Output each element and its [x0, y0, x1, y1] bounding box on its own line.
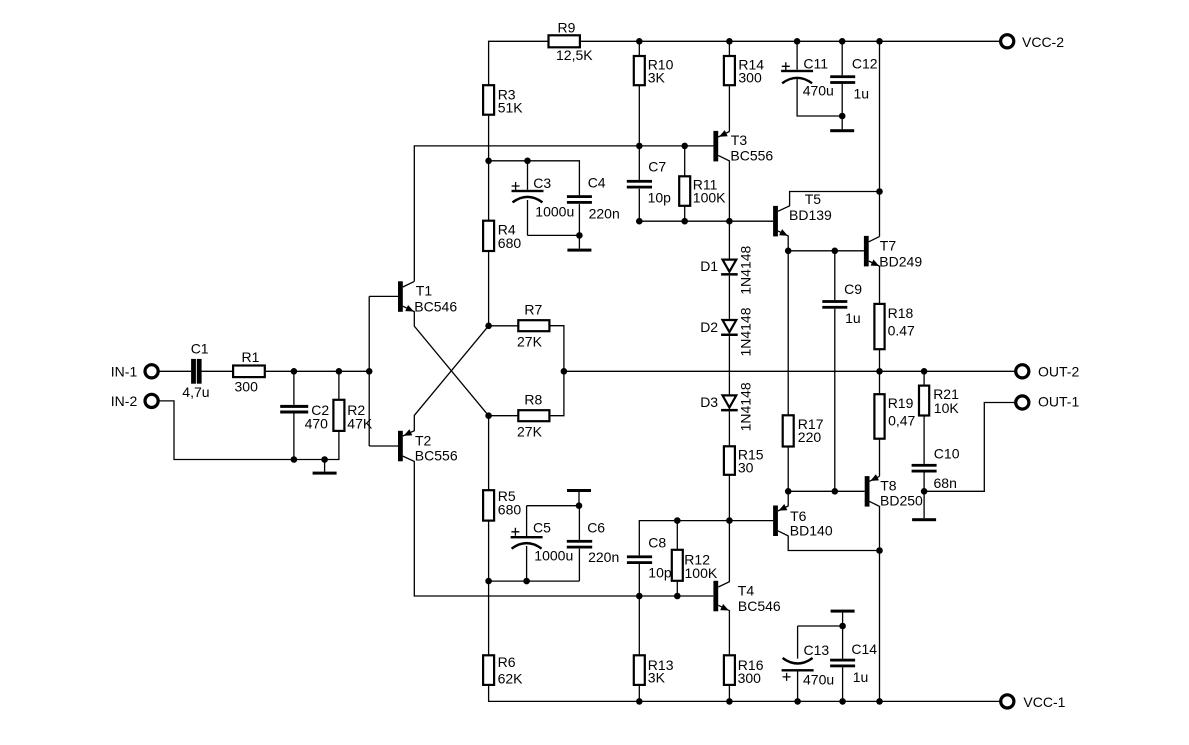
wire T6 collector to T8 collector node — [778, 531, 880, 551]
svg-text:BC546: BC546 — [738, 598, 781, 614]
wire node B to R5 top — [488, 416, 490, 491]
node OUT-2 rail / R18-R19 — [876, 368, 883, 375]
node T5 base / R11 — [681, 218, 688, 225]
svg-text:680: 680 — [498, 235, 522, 251]
wire T4 collector up to bias node — [718, 521, 729, 587]
svg-text:220n: 220n — [589, 205, 620, 221]
svg-text:T4: T4 — [738, 582, 755, 598]
wire T1 collector stub — [403, 281, 415, 287]
emitter arrow T6 — [779, 504, 788, 511]
svg-text:220: 220 — [798, 429, 822, 445]
wire T5 emitter to T7 base — [788, 250, 864, 252]
wire R11 top lead — [684, 146, 686, 176]
diode D2 1N4148 — [723, 320, 737, 332]
svg-text:10p: 10p — [648, 565, 672, 581]
wire C7 bottom to T5 base — [639, 189, 773, 222]
svg-text:C10: C10 — [934, 446, 960, 462]
svg-text:C1: C1 — [191, 341, 209, 357]
svg-text:1u: 1u — [854, 85, 870, 101]
emitter arrow T3 — [719, 130, 728, 137]
wire C8 top to T6 base — [639, 521, 773, 556]
wire C6 top lead — [578, 506, 580, 540]
ground ground (C3/C4) — [578, 235, 580, 248]
svg-text:T7: T7 — [880, 238, 897, 254]
svg-text:3K: 3K — [648, 69, 666, 85]
resistor R12 100K — [672, 550, 683, 581]
terminal VCC-1 — [1001, 695, 1014, 708]
node right rail / T5 T7 collectors — [876, 188, 883, 195]
node top rail / R10 — [636, 38, 643, 45]
svg-text:100K: 100K — [693, 190, 726, 206]
svg-text:T1: T1 — [416, 283, 433, 299]
svg-text:30: 30 — [738, 460, 754, 476]
svg-text:47K: 47K — [347, 415, 373, 431]
resistor R16 300 — [724, 655, 735, 685]
capacitor C10 68n — [912, 464, 937, 467]
wire C13/C14 top node — [798, 625, 843, 627]
polarity + C13 — [783, 673, 791, 681]
node C5 bottom — [523, 578, 530, 585]
resistor R18 0.47 — [874, 304, 884, 349]
wire R12 top lead — [676, 521, 678, 550]
emitter arrow T7 — [871, 260, 880, 267]
svg-text:R9: R9 — [558, 20, 576, 36]
wire input node vertical (T1 base to T2 base) — [368, 296, 370, 446]
wire R17 top lead — [787, 251, 789, 415]
wire R14 top lead — [728, 41, 730, 56]
capacitor C6 220n — [567, 540, 592, 543]
svg-text:D2: D2 — [700, 319, 718, 335]
svg-text:BC556: BC556 — [415, 448, 458, 464]
wire T8 base node wire — [788, 490, 865, 492]
svg-text:BC546: BC546 — [414, 299, 457, 315]
node input / R2 — [336, 368, 343, 375]
wire T3 emitter stub — [718, 132, 729, 138]
resistor R7 27K — [518, 320, 549, 331]
terminal OUT-1 — [1016, 396, 1029, 409]
node top rail / R14 — [726, 38, 733, 45]
capacitor C8 10p — [627, 555, 652, 558]
svg-text:C12: C12 — [852, 56, 878, 72]
wire C3/C4 bottom to ground — [528, 204, 580, 235]
svg-text:680: 680 — [498, 502, 522, 518]
svg-text:R19: R19 — [888, 395, 914, 411]
wire C11 bottom to C12 bottom — [797, 78, 842, 116]
svg-text:12,5K: 12,5K — [556, 47, 593, 63]
resistor R6 62K — [483, 655, 494, 685]
emitter arrow T1 — [405, 305, 414, 312]
transistor T7 BD249 — [864, 236, 869, 267]
wire R17 bottom lead — [787, 447, 789, 492]
emitter arrow T5 — [779, 229, 788, 236]
wire T1 collector to T3 base — [414, 146, 713, 282]
wire C5/C6 bottom node to R5 rail — [489, 580, 580, 582]
svg-text:VCC-1: VCC-1 — [1023, 694, 1065, 710]
wire T8 collector down — [870, 501, 880, 550]
svg-text:T8: T8 — [880, 478, 897, 494]
wire C7 top lead — [638, 146, 640, 180]
terminal IN-2 — [145, 394, 158, 407]
node T3 base wire / C7-R10 — [636, 143, 643, 150]
capacitor C5 1000u (electrolytic) — [511, 536, 543, 538]
wire C3 bottom lead — [527, 200, 529, 235]
svg-text:68n: 68n — [934, 475, 957, 491]
svg-text:27K: 27K — [517, 423, 543, 439]
wire R16 bottom lead — [728, 685, 730, 702]
node T8 base / R17 — [785, 488, 792, 495]
svg-text:1000u: 1000u — [535, 203, 574, 219]
svg-text:0,47: 0,47 — [888, 412, 915, 428]
wire R12 bottom lead — [676, 581, 678, 596]
svg-text:220n: 220n — [588, 549, 619, 565]
node T6 base / R15 / T4 collector — [726, 517, 733, 524]
wire C9 top lead — [834, 251, 836, 300]
ground ground (C13/C14, inverted) — [831, 610, 855, 613]
svg-text:3K: 3K — [648, 670, 666, 686]
polarity + C3 — [512, 182, 520, 190]
node A (R4/R7/T2 emitter) — [485, 323, 492, 330]
node T5 base / C7 — [636, 218, 643, 225]
terminal OUT-2 — [1016, 365, 1029, 378]
wire C8 bottom lead — [638, 564, 640, 596]
capacitor C3 1000u (electrolytic) — [512, 190, 544, 192]
wire T4 emitter to R16 — [718, 605, 729, 655]
wire node B to R8 — [489, 415, 519, 417]
svg-text:1u: 1u — [845, 310, 861, 326]
wire C9 bottom lead to T8 base node — [834, 309, 836, 492]
svg-text:BD140: BD140 — [790, 523, 833, 539]
svg-text:C4: C4 — [588, 175, 606, 191]
svg-text:BD139: BD139 — [789, 207, 832, 223]
wire C12 bottom lead — [841, 83, 843, 116]
wire R21 bottom to C10 — [923, 416, 925, 464]
wire R19 bottom to T8 emitter — [870, 439, 880, 482]
svg-text:1N4148: 1N4148 — [737, 245, 753, 294]
svg-text:470u: 470u — [803, 82, 834, 98]
node T4 base wire / C8-R13 — [636, 593, 643, 600]
wire C6 bottom lead — [578, 549, 580, 581]
svg-text:C9: C9 — [844, 281, 862, 297]
resistor R21 10K — [919, 386, 929, 416]
node T3 base wire / R11 — [681, 143, 688, 150]
wire T3 collector to D1 — [728, 221, 730, 258]
wire C3 top lead — [527, 161, 529, 190]
svg-text:OUT-2: OUT-2 — [1038, 363, 1079, 379]
node R5 bottom / C5-C6 — [485, 578, 492, 585]
svg-text:27K: 27K — [517, 333, 543, 349]
emitter arrow T8 — [870, 474, 879, 481]
svg-text:C14: C14 — [851, 641, 877, 657]
resistor R10 3K — [634, 56, 645, 85]
svg-text:300: 300 — [235, 378, 259, 394]
terminal VCC-2 — [1001, 35, 1014, 48]
ground ground (input network) — [324, 460, 326, 472]
svg-text:C7: C7 — [648, 159, 666, 175]
terminal IN-1 — [145, 365, 158, 378]
resistor R1 300 — [233, 366, 265, 378]
wire T7 collector stub — [869, 237, 880, 242]
transistor T8 BD250 — [865, 476, 870, 507]
resistor R2 47K — [333, 400, 344, 431]
node T4 base wire / R12 — [674, 593, 681, 600]
wire T1 emitter diagonal to node B — [403, 306, 489, 416]
wire C5/C6 top node — [527, 505, 580, 507]
svg-text:R8: R8 — [524, 391, 542, 407]
wire C12 top lead — [841, 41, 843, 75]
resistor R15 30 — [724, 446, 735, 475]
capacitor C4 220n — [567, 195, 592, 198]
svg-text:300: 300 — [738, 670, 762, 686]
wire C2 bottom lead — [293, 414, 295, 460]
node C5-C6 top / ground — [576, 502, 583, 509]
wire C5 bottom lead — [526, 546, 528, 581]
wire R3 bottom to R4 top (node with C3) — [488, 115, 490, 221]
node C3 top lead — [524, 158, 531, 165]
wire IN-1 to C1 — [158, 370, 191, 372]
ground ground (C11/C12) — [841, 116, 843, 129]
capacitor C2 470 — [280, 405, 308, 408]
node top rail / C12 — [839, 38, 846, 45]
node R7-R8 / OUT-2 rail — [561, 368, 568, 375]
wire R6 bottom + bottom supply rail VCC-1 — [489, 685, 1001, 702]
svg-text:R1: R1 — [242, 349, 260, 365]
wire R5 bottom to R6 top — [488, 521, 490, 656]
wire D1 to D2 — [728, 276, 730, 319]
capacitor C13 470u (electrolytic, inverted) — [783, 658, 813, 664]
node T5 base / T3 collector / D1 — [726, 218, 733, 225]
resistor R17 220 — [783, 415, 794, 446]
wire R18 bottom to OUT-2 rail — [879, 349, 881, 371]
wire R10 bottom lead — [638, 85, 640, 146]
svg-text:62K: 62K — [498, 671, 524, 687]
wire R14 bottom lead to T3 emitter — [728, 85, 730, 131]
wire C3/C4 top node — [489, 161, 580, 195]
wire node A to R7 — [489, 325, 519, 327]
node T8 base / C9 — [832, 488, 839, 495]
svg-text:R18: R18 — [888, 305, 914, 321]
node bottom rail / R16 — [726, 698, 733, 705]
wire C14 top lead — [842, 626, 844, 659]
node top rail / right rail — [876, 38, 883, 45]
resistor R4 680 — [483, 221, 494, 251]
wire C5 top lead — [526, 506, 528, 536]
svg-text:100K: 100K — [685, 565, 718, 581]
svg-text:470u: 470u — [803, 672, 834, 688]
svg-text:470: 470 — [305, 415, 329, 431]
wire T5 collector to right rail — [778, 192, 880, 212]
transistor T2 BC556 — [398, 431, 403, 462]
svg-text:C6: C6 — [587, 520, 605, 536]
wire T1 base — [369, 295, 398, 297]
node B (R5/R8/T1 emitter) — [485, 412, 492, 419]
node C10 / OUT-1 / ground — [921, 488, 928, 495]
resistor R13 3K — [634, 655, 645, 685]
wire T6 emitter lead up — [778, 491, 788, 511]
svg-text:D1: D1 — [700, 258, 718, 274]
wire T2 emitter diagonal to node A — [403, 326, 489, 436]
svg-text:VCC-2: VCC-2 — [1022, 34, 1064, 50]
resistor R8 27K — [518, 410, 549, 421]
transistor T5 BD139 — [773, 206, 778, 237]
node T6 base / R12 — [674, 517, 681, 524]
svg-text:T6: T6 — [790, 508, 807, 524]
wire R13 bottom lead — [638, 685, 640, 702]
emitter arrow T4 — [720, 604, 729, 611]
svg-text:R7: R7 — [524, 301, 542, 317]
wire C14 bottom lead — [842, 667, 844, 701]
wire T7 emitter to R18 — [869, 261, 880, 304]
svg-text:IN-1: IN-1 — [111, 363, 138, 379]
wire D3 to R15 — [728, 412, 730, 447]
svg-text:C8: C8 — [648, 535, 666, 551]
node T5 emitter wire / C9 — [832, 248, 839, 255]
svg-text:51K: 51K — [498, 99, 524, 115]
wire R8 right to OUT-2 rail — [549, 371, 564, 415]
node bottom rail / C13 — [794, 698, 801, 705]
resistor R19 0,47 — [874, 394, 884, 439]
svg-text:4,7u: 4,7u — [182, 384, 209, 400]
resistor R14 300 — [724, 56, 735, 85]
polarity + C5 — [511, 528, 519, 536]
svg-text:10K: 10K — [934, 400, 960, 416]
svg-text:0.47: 0.47 — [888, 323, 915, 339]
wire OUT-2 rail — [564, 370, 1016, 372]
svg-text:BD249: BD249 — [879, 253, 922, 269]
wire T3 collector stub and lead — [718, 155, 729, 221]
node bottom rail / R13 — [636, 698, 643, 705]
node bottom rail / C14 — [839, 698, 846, 705]
ground ground (C10) — [923, 491, 925, 518]
resistor R5 680 — [483, 490, 494, 520]
svg-text:IN-2: IN-2 — [111, 393, 138, 409]
wire R15 bottom lead — [728, 475, 730, 521]
node C13-C14 top / ground — [839, 623, 846, 630]
node top rail / C11 — [794, 38, 801, 45]
wire R7 right to OUT-2 rail — [549, 326, 564, 372]
transistor T3 BC556 — [713, 131, 718, 162]
node input / C2 — [291, 368, 298, 375]
svg-text:1N4148: 1N4148 — [737, 382, 753, 431]
node C11-C12 bottom — [839, 113, 846, 120]
wire T5 emitter lead — [778, 231, 788, 251]
svg-text:1000u: 1000u — [534, 547, 573, 563]
svg-text:C5: C5 — [533, 520, 551, 536]
wire C13 top lead — [797, 626, 799, 659]
wire R13 top lead — [638, 596, 640, 655]
capacitor C1 4,7u (vertical plates) — [191, 359, 196, 384]
svg-text:1N4148: 1N4148 — [737, 307, 753, 356]
wire R21 top lead — [923, 371, 925, 385]
node bottom rail / right rail — [876, 698, 883, 705]
svg-text:D3: D3 — [700, 394, 718, 410]
wire C13 bottom lead — [797, 672, 799, 702]
transistor T4 BC546 — [713, 581, 718, 612]
wire D2 to D3 — [728, 336, 730, 394]
wire right rail top (VCC-2 to T7 collector) — [879, 41, 881, 236]
wire C1 to R1 — [202, 370, 234, 372]
node C3 top / R3-R4 — [485, 158, 492, 165]
polarity + C11 — [782, 62, 790, 70]
wire C11 top lead — [796, 41, 798, 70]
node C4 bottom / ground — [576, 232, 583, 239]
wire IN-2 down and right to R2 bottom — [158, 401, 339, 460]
svg-text:R6: R6 — [498, 654, 516, 670]
capacitor C14 1u — [830, 659, 855, 662]
wire R4 bottom to node A — [488, 251, 490, 326]
svg-text:C3: C3 — [533, 175, 551, 191]
emitter arrow T2 — [404, 429, 413, 435]
capacitor C9 1u — [822, 300, 847, 303]
wire OUT-1 connection — [924, 403, 1016, 492]
wire R1 to input node — [265, 370, 369, 372]
wire top supply rail VCC-2 — [489, 41, 1001, 85]
svg-text:C11: C11 — [803, 56, 828, 72]
wire R10 top lead — [638, 41, 640, 56]
resistor R11 100K — [679, 176, 690, 206]
wire T2 collector to T4 base — [403, 456, 714, 596]
wire R11 bottom lead — [684, 206, 686, 221]
svg-text:C13: C13 — [804, 642, 830, 658]
svg-text:T3: T3 — [731, 132, 748, 148]
wire C2 top lead — [293, 371, 295, 405]
svg-text:OUT-1: OUT-1 — [1038, 393, 1079, 409]
svg-text:T5: T5 — [805, 191, 822, 207]
ground ground (C5/C6, inverted) — [567, 489, 591, 492]
node T6-T8 collectors — [876, 547, 883, 554]
diode D1 1N4148 — [723, 260, 737, 272]
resistor R3 51K — [483, 85, 494, 115]
wire R2 top lead — [338, 371, 340, 400]
wire T2 base — [369, 445, 398, 447]
resistor R9 12,5K — [549, 35, 580, 47]
diode D3 1N4148 — [723, 395, 737, 407]
svg-text:BD250: BD250 — [880, 493, 923, 509]
svg-text:300: 300 — [738, 69, 762, 85]
node input / T1 T2 bases — [366, 368, 373, 375]
wire right rail bottom — [879, 551, 881, 702]
transistor T1 BC546 — [398, 281, 403, 312]
capacitor C12 1u — [830, 75, 855, 78]
svg-text:1u: 1u — [853, 669, 869, 685]
wire R19 top lead — [879, 371, 881, 394]
svg-text:T2: T2 — [415, 432, 432, 448]
node IN-2 wire / C2 — [291, 456, 298, 463]
capacitor C7 10p — [627, 180, 652, 183]
transistor T6 BD140 — [773, 506, 778, 537]
node IN-2 wire / ground — [321, 456, 328, 463]
svg-text:10p: 10p — [648, 189, 672, 205]
node OUT-2 rail / R21 — [921, 368, 928, 375]
svg-text:BC556: BC556 — [730, 148, 773, 164]
wire C10 bottom lead — [923, 472, 925, 491]
capacitor C11 470u (electrolytic) — [781, 70, 813, 72]
node T5 emitter / R17 — [785, 248, 792, 255]
